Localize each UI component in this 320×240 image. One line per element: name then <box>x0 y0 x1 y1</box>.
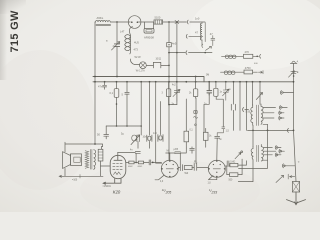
bracket node B3 <box>216 96 223 127</box>
resistor R13 <box>184 131 189 142</box>
resistor R4 <box>244 70 253 74</box>
junction node X <box>176 21 178 23</box>
bracket node B1 <box>169 104 177 106</box>
lamp G2 dial <box>140 62 147 69</box>
resistor R5 <box>114 89 119 98</box>
contact K4 <box>279 116 284 120</box>
svg-text:W 0,17A: W 0,17A <box>136 70 145 73</box>
heater link staple <box>153 62 169 68</box>
svg-text:K20: K20 <box>113 190 121 195</box>
wire g1 line <box>166 148 187 165</box>
tube V1 output <box>103 155 126 184</box>
resistor R1 <box>154 20 163 24</box>
svg-text:4n5: 4n5 <box>172 42 177 46</box>
resistor R10 <box>166 89 170 97</box>
transformer T2 <box>238 146 253 181</box>
capacitor C17 trimmer <box>223 82 230 100</box>
wire speaker bottom <box>59 168 103 177</box>
crystal X1 <box>194 110 197 113</box>
capacitor C5 <box>125 82 129 126</box>
wire socket bottom left <box>155 175 164 180</box>
bus A <box>93 77 204 82</box>
inductor L4 antenna series 2 <box>221 71 245 73</box>
wire drop x117 <box>116 22 118 77</box>
transformer T1 <box>251 105 253 126</box>
wire socket3 bottom <box>209 176 217 180</box>
svg-text:µ/05: µ/05 <box>174 149 179 151</box>
inductor L3 antenna series <box>222 55 244 57</box>
ballast R17 <box>292 182 299 193</box>
wire T1-T2 frame links <box>253 125 268 160</box>
svg-text:0,1: 0,1 <box>110 91 114 95</box>
svg-text:473: 473 <box>134 48 139 52</box>
contact K9 <box>282 164 294 168</box>
svg-text:0Ω02: 0Ω02 <box>128 166 133 168</box>
svg-text:=1500Ω: =1500Ω <box>103 186 111 188</box>
arrow tuning T1 <box>256 93 262 100</box>
capacitor C4 <box>103 82 107 89</box>
svg-text:E: E <box>297 70 299 74</box>
resistor R18 <box>98 149 103 161</box>
wire anode <box>117 152 119 155</box>
antenna A <box>290 61 297 82</box>
switch contact S1b <box>186 34 203 38</box>
svg-text:5100: 5100 <box>155 16 161 20</box>
contact K6 <box>275 146 281 150</box>
contact K7 <box>279 149 284 153</box>
wire top rail <box>95 21 187 23</box>
tiny labels <box>72 16 300 188</box>
capacitor C8 <box>158 135 163 142</box>
capacitor C20 <box>217 127 225 136</box>
svg-text:0M: 0M <box>206 75 209 77</box>
svg-text:Y:: Y: <box>298 162 300 164</box>
capacitor C16 <box>207 82 212 95</box>
wire row y130 <box>248 129 294 131</box>
resistor R15 <box>230 163 238 166</box>
lamp G1 scale <box>128 16 141 29</box>
arrester F1 <box>289 71 297 77</box>
contact dot <box>195 124 197 126</box>
svg-text:1MΩ: 1MΩ <box>230 161 235 163</box>
capacitor C7 <box>147 135 152 141</box>
wire right bus <box>294 82 297 182</box>
svg-text:M: M <box>167 151 169 153</box>
resistor R14 <box>203 132 208 140</box>
svg-text:470: 470 <box>245 50 250 54</box>
inductor L2 antenna coil <box>200 23 202 40</box>
arrow P2 <box>235 153 241 159</box>
wire coupling drop <box>135 154 137 163</box>
wire speaker drop <box>94 82 96 144</box>
bracket node B2 <box>204 95 209 132</box>
contact K2 <box>279 106 287 110</box>
switch contact S1c <box>169 51 212 55</box>
capacitor C15 trimmer <box>173 86 180 101</box>
capacitor C12 <box>178 165 182 171</box>
switch contact S1a <box>187 20 205 24</box>
contact K5 <box>287 128 288 132</box>
svg-text:5-30: 5-30 <box>246 112 251 114</box>
svg-text:47n: 47n <box>98 85 103 89</box>
T2 taps <box>239 148 276 169</box>
wire tube left <box>101 165 111 167</box>
speaker LS <box>65 142 103 152</box>
svg-text:A5KL: A5KL <box>97 16 104 20</box>
wire grid top <box>169 153 171 160</box>
capacitor C6 electrolytic <box>104 126 109 139</box>
wire verticals mid2 <box>186 98 196 163</box>
switch arm S1d <box>202 44 212 50</box>
capacitor C18 <box>190 147 195 153</box>
transformer T3 output <box>85 151 89 169</box>
resistor R11 <box>193 89 197 97</box>
svg-text:4750: 4750 <box>245 66 251 70</box>
svg-text:715 GW: 715 GW <box>9 10 21 52</box>
potentiometer P1 <box>131 82 141 149</box>
capacitor C14 <box>215 136 220 160</box>
node dots switch line <box>176 52 178 54</box>
resistor R7 <box>138 161 143 164</box>
node dots T1 <box>252 130 294 132</box>
capacitor C13 <box>192 163 208 170</box>
contact K1 <box>243 108 249 112</box>
T1 taps <box>263 108 276 131</box>
svg-text:L47: L47 <box>120 30 125 34</box>
mains plug <box>287 192 306 205</box>
resistor R9 <box>184 166 192 170</box>
wire grid drop x169 <box>168 22 170 160</box>
capacitor C11 <box>175 152 181 154</box>
bus B <box>93 81 294 83</box>
svg-text:=100: =100 <box>72 180 78 182</box>
resistor R16 <box>230 173 238 177</box>
node dots bus <box>94 76 294 83</box>
resistor R6 <box>129 161 134 164</box>
capacitor C2 padder <box>167 43 172 47</box>
contact K3 <box>279 111 284 115</box>
wire t1 feeds <box>234 82 261 131</box>
wire switch drop x176 <box>176 22 178 105</box>
svg-text:4U5: 4U5 <box>134 41 139 45</box>
svg-text:10/11: 10/11 <box>156 59 162 61</box>
wire left drop <box>94 22 96 82</box>
wire grid row <box>126 161 162 163</box>
contact K8 <box>275 153 281 157</box>
resistor R12 <box>214 88 218 96</box>
capacitor C9 <box>118 152 141 154</box>
resistor R3 <box>244 54 253 58</box>
wire mid horizontals <box>106 125 141 127</box>
contact K0 tuner <box>280 91 293 95</box>
capacitor C19 <box>231 104 235 130</box>
svg-text:52 W: 52 W <box>135 55 142 59</box>
capacitor C3 trimmer <box>211 36 215 46</box>
capacitor C10 <box>149 160 151 165</box>
svg-text:1n0: 1n0 <box>195 17 200 21</box>
wire lamp link <box>130 59 139 65</box>
wire verticals mid <box>156 82 162 163</box>
resistor R2 Urdox <box>144 28 154 33</box>
wave symbol <box>194 117 198 119</box>
switch S3 mains <box>276 175 284 182</box>
svg-text:AF80/08: AF80/08 <box>144 35 154 39</box>
tube labels <box>113 188 217 195</box>
capacitor C1 trimmer <box>114 44 119 47</box>
svg-text:A: A <box>297 60 299 64</box>
tube V3 socket <box>208 160 225 177</box>
tube V2 socket <box>161 160 178 177</box>
resistor heater dropper squiggle <box>125 27 133 54</box>
svg-text:0Ω05: 0Ω05 <box>138 166 143 168</box>
inductor L1 mains choke <box>96 20 111 25</box>
